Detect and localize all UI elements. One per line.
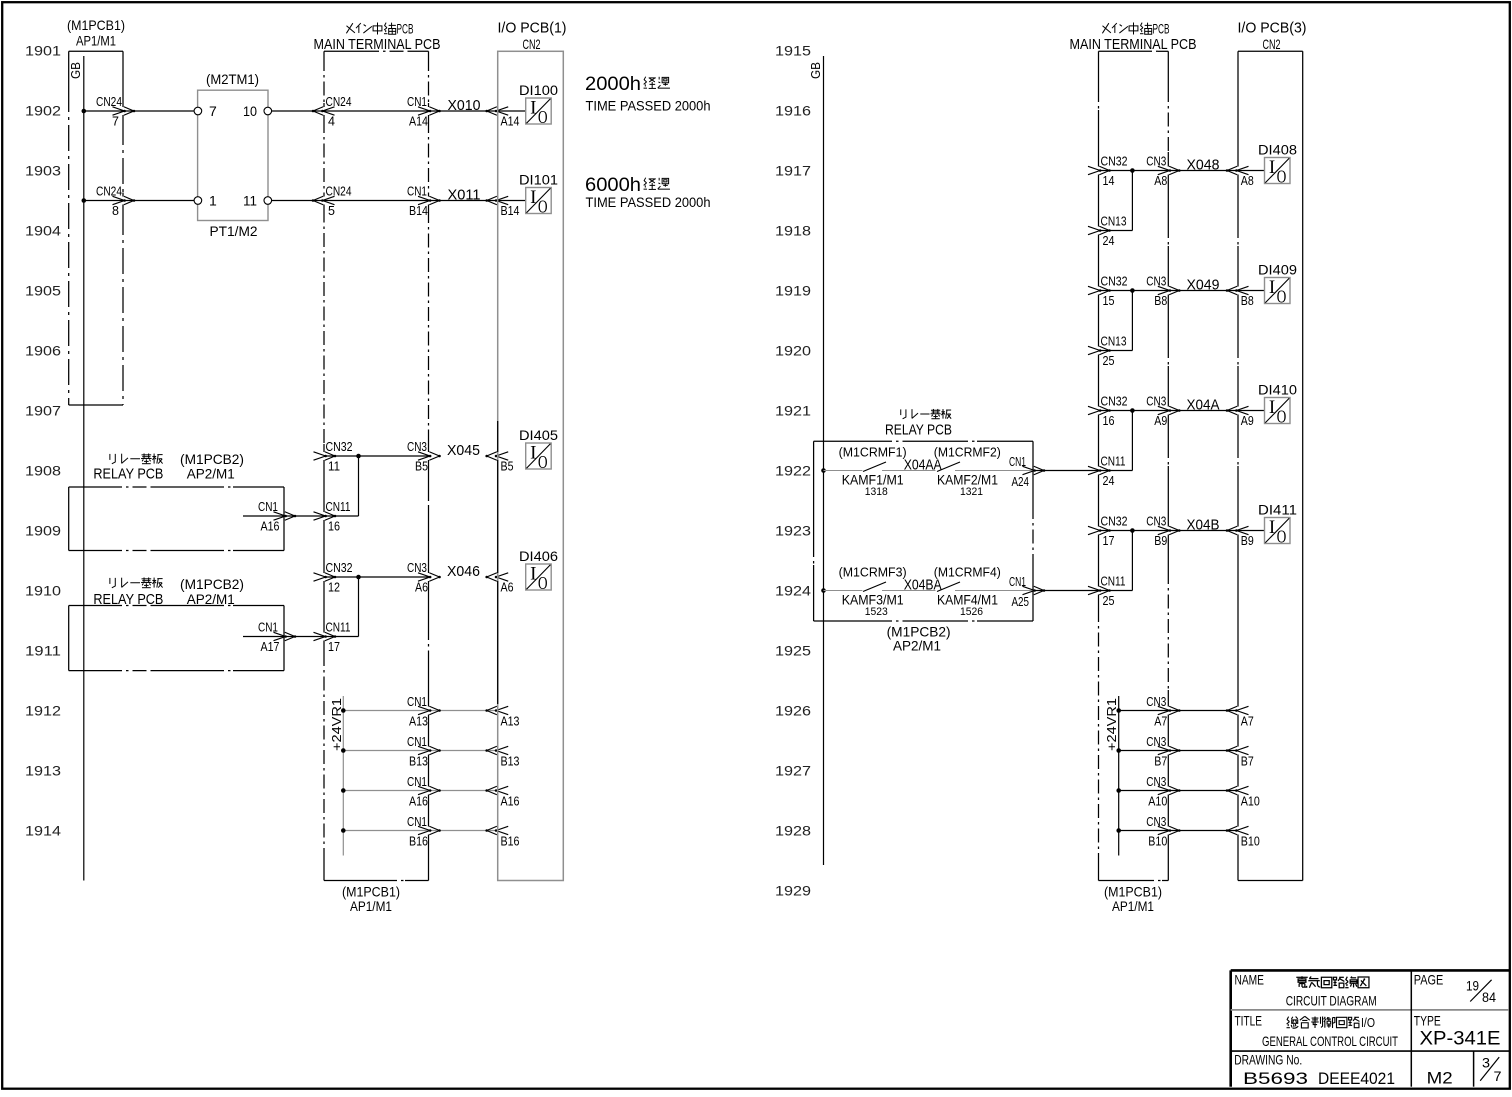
svg-text:PCB: PCB bbox=[1153, 22, 1170, 37]
wire relay2 output bbox=[243, 636, 359, 638]
svg-text:84: 84 bbox=[1482, 989, 1496, 1005]
junction on GB row 1903/04 bbox=[82, 198, 87, 203]
svg-text:A14: A14 bbox=[501, 115, 520, 129]
wire row X04B bbox=[1099, 530, 1239, 532]
svg-text:CN1: CN1 bbox=[407, 735, 427, 749]
svg-text:AP1/M1: AP1/M1 bbox=[76, 33, 116, 49]
svg-text:4: 4 bbox=[328, 115, 335, 129]
connector CN11 pin 16 bbox=[314, 500, 351, 534]
svg-text:A9: A9 bbox=[1241, 414, 1254, 428]
junction node X04B bbox=[1130, 528, 1135, 533]
svg-text:GB: GB bbox=[808, 62, 823, 79]
relay board 1 label bbox=[93, 451, 244, 482]
board M1PCB1 AP1/M1 (top left) bbox=[67, 17, 125, 405]
connector CN1 pin A25 bbox=[1009, 575, 1045, 609]
svg-text:(M2TM1): (M2TM1) bbox=[206, 71, 259, 87]
svg-text:TITLE: TITLE bbox=[1235, 1012, 1263, 1028]
svg-text:PCB: PCB bbox=[397, 22, 414, 37]
I/O module DI406 bbox=[519, 549, 558, 593]
svg-text:24: 24 bbox=[1103, 234, 1115, 248]
svg-text:CIRCUIT DIAGRAM: CIRCUIT DIAGRAM bbox=[1286, 992, 1377, 1008]
annotation 6000h keika bbox=[585, 174, 711, 211]
svg-text:(M1PCB1): (M1PCB1) bbox=[67, 17, 125, 33]
junction +24VR1 A16 bbox=[341, 788, 346, 793]
relay board 2 box bbox=[69, 606, 284, 671]
svg-text:O: O bbox=[538, 197, 548, 217]
svg-text:1908: 1908 bbox=[25, 463, 61, 479]
svg-text:1901: 1901 bbox=[25, 43, 61, 59]
svg-text:1917: 1917 bbox=[775, 163, 811, 179]
svg-text:5: 5 bbox=[328, 204, 335, 218]
svg-text:MAIN TERMINAL PCB: MAIN TERMINAL PCB bbox=[1070, 36, 1197, 53]
relay board (right) box bbox=[814, 441, 1033, 653]
svg-text:1915: 1915 bbox=[775, 43, 811, 59]
svg-text:CN11: CN11 bbox=[1101, 575, 1126, 589]
title block bbox=[1231, 970, 1509, 1086]
wire M2TM1 pin11 to I/O row 1903 bbox=[272, 200, 526, 202]
svg-text:CN1: CN1 bbox=[407, 815, 427, 829]
connector CN1 pin A14 bbox=[407, 95, 441, 129]
connector CN1 pin B16 bbox=[407, 815, 441, 849]
I/O module DI408 bbox=[1258, 143, 1297, 187]
svg-text:1904: 1904 bbox=[25, 223, 61, 239]
svg-text:I: I bbox=[1269, 517, 1275, 538]
connector CN3 pin B7 bbox=[1146, 735, 1180, 769]
svg-text:DI409: DI409 bbox=[1258, 263, 1297, 278]
svg-text:1919: 1919 bbox=[775, 283, 811, 299]
svg-text:1920: 1920 bbox=[775, 343, 811, 359]
connector pin A6 (I/O PCB) bbox=[485, 573, 513, 595]
connector CN3 pin B9 bbox=[1146, 515, 1180, 549]
connector pin B14 (I/O PCB) bbox=[485, 196, 519, 218]
connector CN24 pin 5 bbox=[312, 185, 352, 219]
svg-text:3: 3 bbox=[1482, 1055, 1490, 1071]
svg-text:B10: B10 bbox=[1241, 835, 1260, 849]
wire +24VR1 to CN3 A7 bbox=[1119, 710, 1238, 712]
connector CN32 pin 14 bbox=[1088, 155, 1128, 189]
net +24VR1 (right) bbox=[1105, 696, 1119, 856]
wire CN13-25 up to X049 node bbox=[1099, 350, 1133, 352]
svg-text:O: O bbox=[1277, 167, 1287, 187]
svg-text:A16: A16 bbox=[409, 795, 428, 809]
connector CN32 pin 16 bbox=[1088, 395, 1128, 429]
svg-text:25: 25 bbox=[1103, 594, 1115, 608]
svg-text:1906: 1906 bbox=[25, 343, 61, 359]
svg-text:B8: B8 bbox=[1241, 294, 1254, 308]
relay board (right) label bbox=[885, 409, 952, 439]
connector CN1 pin A24 bbox=[1009, 455, 1045, 489]
svg-text:B13: B13 bbox=[501, 755, 520, 769]
svg-text:1913: 1913 bbox=[25, 763, 61, 779]
svg-text:X046: X046 bbox=[447, 563, 480, 580]
connector CN24 pin 4 bbox=[312, 95, 352, 129]
svg-text:A10: A10 bbox=[1241, 795, 1260, 809]
svg-text:1928: 1928 bbox=[775, 823, 811, 839]
connector pin B8 (I/O PCB 3) bbox=[1226, 286, 1254, 308]
wire relay row X04BA bbox=[824, 590, 863, 592]
net GB (right bus) bbox=[808, 56, 824, 865]
svg-text:A13: A13 bbox=[409, 715, 428, 729]
title: DRAWING No. field bbox=[1234, 1052, 1395, 1088]
I/O module DI100 bbox=[519, 83, 558, 127]
svg-text:CN32: CN32 bbox=[1101, 155, 1128, 169]
svg-text:X011: X011 bbox=[448, 187, 481, 204]
svg-text:1523: 1523 bbox=[865, 606, 888, 618]
svg-text:CN2: CN2 bbox=[1263, 36, 1281, 52]
svg-text:CN3: CN3 bbox=[407, 561, 427, 575]
connector CN13 pin 24 stub bbox=[1088, 215, 1127, 249]
title: sheet 3/7 bbox=[1480, 1055, 1502, 1084]
svg-text:B14: B14 bbox=[501, 204, 520, 218]
svg-text:I: I bbox=[530, 564, 536, 585]
wire relay to main terminal bbox=[1033, 470, 1132, 472]
svg-text:17: 17 bbox=[1103, 534, 1115, 548]
svg-text:CN3: CN3 bbox=[1146, 775, 1166, 789]
svg-text:DI406: DI406 bbox=[519, 549, 558, 564]
svg-text:B9: B9 bbox=[1154, 534, 1167, 548]
svg-text:A7: A7 bbox=[1154, 715, 1167, 729]
I/O module DI411 bbox=[1258, 503, 1297, 547]
svg-text:1903: 1903 bbox=[25, 163, 61, 179]
connector CN3 pin A8 bbox=[1146, 155, 1180, 189]
junction +24VR1 A13 bbox=[341, 708, 346, 713]
svg-text:O: O bbox=[1277, 287, 1287, 307]
svg-text:CN1: CN1 bbox=[258, 500, 278, 514]
svg-text:TYPE: TYPE bbox=[1414, 1012, 1441, 1028]
svg-text:I/O PCB(3): I/O PCB(3) bbox=[1238, 20, 1307, 37]
svg-text:CN3: CN3 bbox=[407, 440, 427, 454]
connector pin A16 (I/O PCB) bbox=[485, 786, 519, 808]
svg-text:12: 12 bbox=[328, 581, 340, 595]
connector CN32 pin 17 bbox=[1088, 515, 1128, 549]
wire +24VR1 to CN1 B13 bbox=[343, 750, 497, 752]
svg-text:1909: 1909 bbox=[25, 523, 61, 539]
connector CN11 pin 25 bbox=[1088, 575, 1126, 609]
wire +24VR1 to CN3 B10 bbox=[1119, 830, 1238, 832]
connector pin A14 (I/O PCB) bbox=[485, 107, 519, 129]
svg-text:O: O bbox=[538, 107, 548, 127]
junction node X049 bbox=[1130, 288, 1135, 293]
I/O module DI410 bbox=[1258, 383, 1297, 427]
connector CN24 pin 7 bbox=[96, 95, 135, 129]
svg-text:I: I bbox=[1269, 397, 1275, 418]
svg-text:11: 11 bbox=[243, 193, 257, 209]
svg-text:+24VR1: +24VR1 bbox=[1105, 698, 1119, 751]
svg-text:2000h: 2000h bbox=[585, 73, 641, 95]
svg-text:TIME PASSED 2000h: TIME PASSED 2000h bbox=[586, 195, 711, 211]
junction GB row bbox=[821, 588, 826, 593]
svg-text:XP-341E: XP-341E bbox=[1420, 1028, 1501, 1050]
board MAIN TERMINAL PCB (left) bbox=[314, 22, 441, 915]
svg-text:8: 8 bbox=[112, 204, 119, 218]
connector CN1 pin A17 bbox=[258, 621, 296, 655]
svg-text:25: 25 bbox=[1103, 354, 1115, 368]
relay contact KAMF2/M1 bbox=[934, 446, 1001, 498]
svg-text:16: 16 bbox=[328, 520, 340, 534]
svg-text:1318: 1318 bbox=[865, 486, 888, 498]
svg-text:B8: B8 bbox=[1154, 294, 1167, 308]
svg-text:6000h: 6000h bbox=[585, 174, 641, 196]
connector CN3 pin B10 bbox=[1146, 815, 1180, 849]
svg-text:X04A: X04A bbox=[1187, 397, 1220, 414]
connector CN1 pin B13 bbox=[407, 735, 441, 769]
svg-text:I/O: I/O bbox=[1361, 1015, 1375, 1030]
svg-text:A25: A25 bbox=[1012, 595, 1030, 609]
relay contact KAMF4/M1 bbox=[934, 566, 1001, 618]
svg-text:CN11: CN11 bbox=[1101, 455, 1126, 469]
connector CN3 pin A9 bbox=[1146, 395, 1180, 429]
connector CN3 pin B5 bbox=[407, 440, 441, 474]
svg-text:19: 19 bbox=[1466, 977, 1479, 993]
svg-text:CN24: CN24 bbox=[326, 185, 352, 199]
svg-text:1910: 1910 bbox=[25, 583, 61, 599]
svg-text:CN11: CN11 bbox=[326, 621, 351, 635]
svg-text:AP1/M1: AP1/M1 bbox=[1112, 898, 1154, 914]
wire row X04A bbox=[1099, 410, 1239, 412]
wire CN13-24 up to X048 node bbox=[1099, 230, 1133, 232]
wire row X048 bbox=[1099, 170, 1239, 172]
connector pin A10 (I/O PCB 3) bbox=[1226, 786, 1260, 808]
svg-text:CN3: CN3 bbox=[1146, 695, 1166, 709]
svg-text:AP2/M1: AP2/M1 bbox=[893, 638, 941, 654]
svg-text:B5: B5 bbox=[501, 460, 514, 474]
title: sheet M2 bbox=[1427, 1069, 1453, 1088]
svg-text:1925: 1925 bbox=[775, 643, 811, 659]
svg-text:M2: M2 bbox=[1427, 1069, 1453, 1088]
svg-text:1912: 1912 bbox=[25, 703, 61, 719]
wire GB to M2TM1 pin7 bbox=[84, 110, 194, 112]
svg-text:14: 14 bbox=[1103, 174, 1115, 188]
svg-text:A14: A14 bbox=[409, 115, 428, 129]
board MAIN TERMINAL PCB (right) bbox=[1070, 22, 1197, 915]
connector pin A13 (I/O PCB) bbox=[485, 706, 519, 728]
svg-text:CN32: CN32 bbox=[1101, 515, 1128, 529]
board I/O PCB(1) CN2 bbox=[498, 20, 567, 881]
connector CN32 pin 15 bbox=[1088, 275, 1128, 309]
svg-text:1914: 1914 bbox=[25, 823, 61, 839]
svg-text:GENERAL CONTROL CIRCUIT: GENERAL CONTROL CIRCUIT bbox=[1262, 1033, 1398, 1049]
wire to I/O module DI411 bbox=[1238, 530, 1265, 532]
svg-text:(M1CRMF1): (M1CRMF1) bbox=[839, 446, 907, 460]
svg-text:CN1: CN1 bbox=[258, 621, 278, 635]
svg-text:TIME PASSED 2000h: TIME PASSED 2000h bbox=[586, 99, 711, 115]
connector CN13 pin 25 stub bbox=[1088, 335, 1127, 369]
svg-text:I: I bbox=[530, 98, 536, 119]
relay contact KAMF3/M1 bbox=[839, 566, 907, 618]
wire relay row X04AA bbox=[824, 470, 863, 472]
svg-text:CN11: CN11 bbox=[326, 500, 351, 514]
svg-text:24: 24 bbox=[1103, 474, 1115, 488]
connector CN1 pin A13 bbox=[407, 695, 441, 729]
junction +24VR1 B10 bbox=[1116, 828, 1121, 833]
svg-text:DI405: DI405 bbox=[519, 428, 558, 443]
svg-text:PAGE: PAGE bbox=[1414, 972, 1444, 988]
connector pin B13 (I/O PCB) bbox=[485, 746, 519, 768]
svg-text:CN32: CN32 bbox=[1101, 275, 1128, 289]
connector CN32 pin 12 bbox=[314, 561, 353, 595]
svg-text:CN3: CN3 bbox=[1146, 815, 1166, 829]
connector CN11 pin 24 bbox=[1088, 455, 1126, 489]
svg-text:X045: X045 bbox=[447, 442, 480, 459]
svg-text:MAIN TERMINAL PCB: MAIN TERMINAL PCB bbox=[314, 36, 441, 53]
svg-text:RELAY PCB: RELAY PCB bbox=[93, 466, 163, 482]
wire relay to main terminal bbox=[1033, 590, 1132, 592]
svg-text:AP2/M1: AP2/M1 bbox=[187, 591, 235, 607]
svg-text:I: I bbox=[1269, 157, 1275, 178]
svg-text:1526: 1526 bbox=[960, 606, 983, 618]
svg-text:B7: B7 bbox=[1154, 755, 1167, 769]
svg-text:X04B: X04B bbox=[1187, 517, 1220, 534]
connector CN3 pin A10 bbox=[1146, 775, 1180, 809]
connector CN11 pin 17 bbox=[314, 621, 351, 655]
connector pin B16 (I/O PCB) bbox=[485, 826, 519, 848]
svg-text:CN1: CN1 bbox=[1009, 575, 1026, 589]
svg-text:O: O bbox=[538, 573, 548, 593]
svg-text:1927: 1927 bbox=[775, 763, 811, 779]
svg-text:CN3: CN3 bbox=[1146, 515, 1166, 529]
svg-text:DI410: DI410 bbox=[1258, 383, 1297, 398]
svg-text:CN24: CN24 bbox=[326, 95, 352, 109]
junction node X045 bbox=[356, 454, 361, 459]
connector CN3 pin A7 bbox=[1146, 695, 1180, 729]
wire +24VR1 to CN1 B16 bbox=[343, 830, 497, 832]
annotation 2000h keika bbox=[585, 73, 711, 115]
junction node X04A bbox=[1130, 408, 1135, 413]
svg-text:O: O bbox=[1277, 527, 1287, 547]
svg-text:+24VR1: +24VR1 bbox=[330, 698, 344, 751]
svg-text:17: 17 bbox=[328, 640, 340, 654]
svg-text:(M1PCB2): (M1PCB2) bbox=[180, 576, 244, 592]
svg-text:A24: A24 bbox=[1012, 475, 1030, 489]
M2TM1 pin 1 bbox=[194, 193, 217, 209]
svg-text:7: 7 bbox=[1494, 1068, 1502, 1084]
svg-text:A13: A13 bbox=[501, 715, 520, 729]
M2TM1 pin 7 bbox=[194, 103, 217, 119]
svg-text:I: I bbox=[530, 443, 536, 464]
svg-text:CN13: CN13 bbox=[1101, 335, 1127, 349]
svg-text:B5693: B5693 bbox=[1243, 1069, 1308, 1088]
svg-text:1926: 1926 bbox=[775, 703, 811, 719]
svg-text:1907: 1907 bbox=[25, 403, 61, 419]
svg-text:1929: 1929 bbox=[775, 883, 811, 899]
wire to I/O module DI408 bbox=[1238, 170, 1265, 172]
svg-text:A17: A17 bbox=[261, 640, 280, 654]
svg-text:NAME: NAME bbox=[1235, 972, 1265, 988]
I/O module DI405 bbox=[519, 428, 558, 472]
title: TYPE field bbox=[1414, 1012, 1501, 1049]
wire row X049 bbox=[1099, 290, 1239, 292]
svg-text:CN24: CN24 bbox=[96, 95, 122, 109]
svg-text:I: I bbox=[530, 187, 536, 208]
junction +24VR1 A10 bbox=[1116, 788, 1121, 793]
svg-text:X049: X049 bbox=[1187, 277, 1220, 294]
svg-text:A8: A8 bbox=[1241, 174, 1254, 188]
svg-text:DI408: DI408 bbox=[1258, 143, 1297, 158]
junction +24VR1 B7 bbox=[1116, 748, 1121, 753]
svg-text:CN24: CN24 bbox=[96, 185, 122, 199]
svg-text:CN1: CN1 bbox=[407, 95, 427, 109]
svg-text:DRAWING No.: DRAWING No. bbox=[1234, 1052, 1302, 1068]
connector pin A8 (I/O PCB 3) bbox=[1226, 166, 1254, 188]
connector CN32 pin 11 bbox=[314, 440, 353, 474]
M2TM1 pin 10 bbox=[243, 103, 272, 119]
connector pin A7 (I/O PCB 3) bbox=[1226, 706, 1254, 728]
svg-text:B16: B16 bbox=[409, 835, 428, 849]
svg-text:PT1/M2: PT1/M2 bbox=[210, 223, 258, 239]
title: PAGE field bbox=[1414, 972, 1496, 1005]
connector CN1 pin A16 bbox=[258, 500, 296, 534]
terminal block M2TM1 / PT1/M2 bbox=[198, 71, 268, 239]
connector CN24 pin 8 bbox=[96, 185, 135, 219]
junction node X048 bbox=[1130, 168, 1135, 173]
I/O module DI101 bbox=[519, 173, 558, 217]
svg-text:DI411: DI411 bbox=[1258, 503, 1297, 518]
relay contact KAMF1/M1 bbox=[839, 446, 907, 498]
svg-text:B10: B10 bbox=[1148, 835, 1167, 849]
svg-text:(M1CRMF3): (M1CRMF3) bbox=[839, 566, 907, 580]
junction +24VR1 A7 bbox=[1116, 708, 1121, 713]
svg-text:B9: B9 bbox=[1241, 534, 1254, 548]
svg-text:CN13: CN13 bbox=[1101, 215, 1127, 229]
wire to I/O module DI410 bbox=[1238, 410, 1265, 412]
svg-text:B16: B16 bbox=[501, 835, 520, 849]
svg-text:7: 7 bbox=[209, 103, 217, 119]
svg-text:A7: A7 bbox=[1241, 715, 1254, 729]
svg-text:DI101: DI101 bbox=[519, 173, 558, 188]
svg-text:CN32: CN32 bbox=[326, 561, 353, 575]
svg-text:A10: A10 bbox=[1148, 795, 1167, 809]
junction GB row bbox=[821, 468, 826, 473]
svg-text:CN1: CN1 bbox=[407, 185, 427, 199]
connector pin B7 (I/O PCB 3) bbox=[1226, 746, 1254, 768]
svg-text:DEEE4021: DEEE4021 bbox=[1318, 1069, 1395, 1088]
svg-text:O: O bbox=[1277, 407, 1287, 427]
svg-text:A9: A9 bbox=[1154, 414, 1167, 428]
svg-text:A16: A16 bbox=[261, 520, 280, 534]
svg-text:B13: B13 bbox=[409, 755, 428, 769]
wire CN32-11 row 1908 bbox=[324, 455, 429, 457]
svg-text:10: 10 bbox=[243, 103, 257, 119]
svg-text:1321: 1321 bbox=[960, 486, 983, 498]
svg-text:AP2/M1: AP2/M1 bbox=[187, 465, 235, 481]
svg-text:I/O PCB(1): I/O PCB(1) bbox=[498, 20, 567, 37]
title: TITLE field bbox=[1235, 1012, 1399, 1049]
svg-text:AP1/M1: AP1/M1 bbox=[350, 898, 392, 914]
svg-text:7: 7 bbox=[112, 115, 119, 129]
svg-text:1923: 1923 bbox=[775, 523, 811, 539]
svg-text:CN32: CN32 bbox=[1101, 395, 1128, 409]
svg-text:CN1: CN1 bbox=[1009, 455, 1026, 469]
title: NAME field bbox=[1235, 972, 1377, 1009]
board I/O PCB(3) CN2 bbox=[1238, 20, 1307, 881]
svg-text:1905: 1905 bbox=[25, 283, 61, 299]
svg-text:15: 15 bbox=[1103, 294, 1115, 308]
wire +24VR1 to CN1 A16 bbox=[343, 790, 497, 792]
I/O module DI409 bbox=[1258, 263, 1297, 307]
svg-text:CN3: CN3 bbox=[1146, 735, 1166, 749]
svg-text:CN1: CN1 bbox=[407, 695, 427, 709]
svg-text:A6: A6 bbox=[501, 581, 514, 595]
wire junction down to CN11-16 bbox=[358, 456, 360, 516]
svg-text:CN3: CN3 bbox=[1146, 275, 1166, 289]
connector CN1 pin B14 bbox=[407, 185, 441, 219]
svg-text:RELAY PCB: RELAY PCB bbox=[885, 423, 952, 439]
svg-text:CN32: CN32 bbox=[326, 440, 353, 454]
junction on GB row 1902 bbox=[82, 109, 87, 114]
connector CN3 pin B8 bbox=[1146, 275, 1180, 309]
svg-text:1922: 1922 bbox=[775, 463, 811, 479]
svg-text:X048: X048 bbox=[1187, 157, 1220, 174]
